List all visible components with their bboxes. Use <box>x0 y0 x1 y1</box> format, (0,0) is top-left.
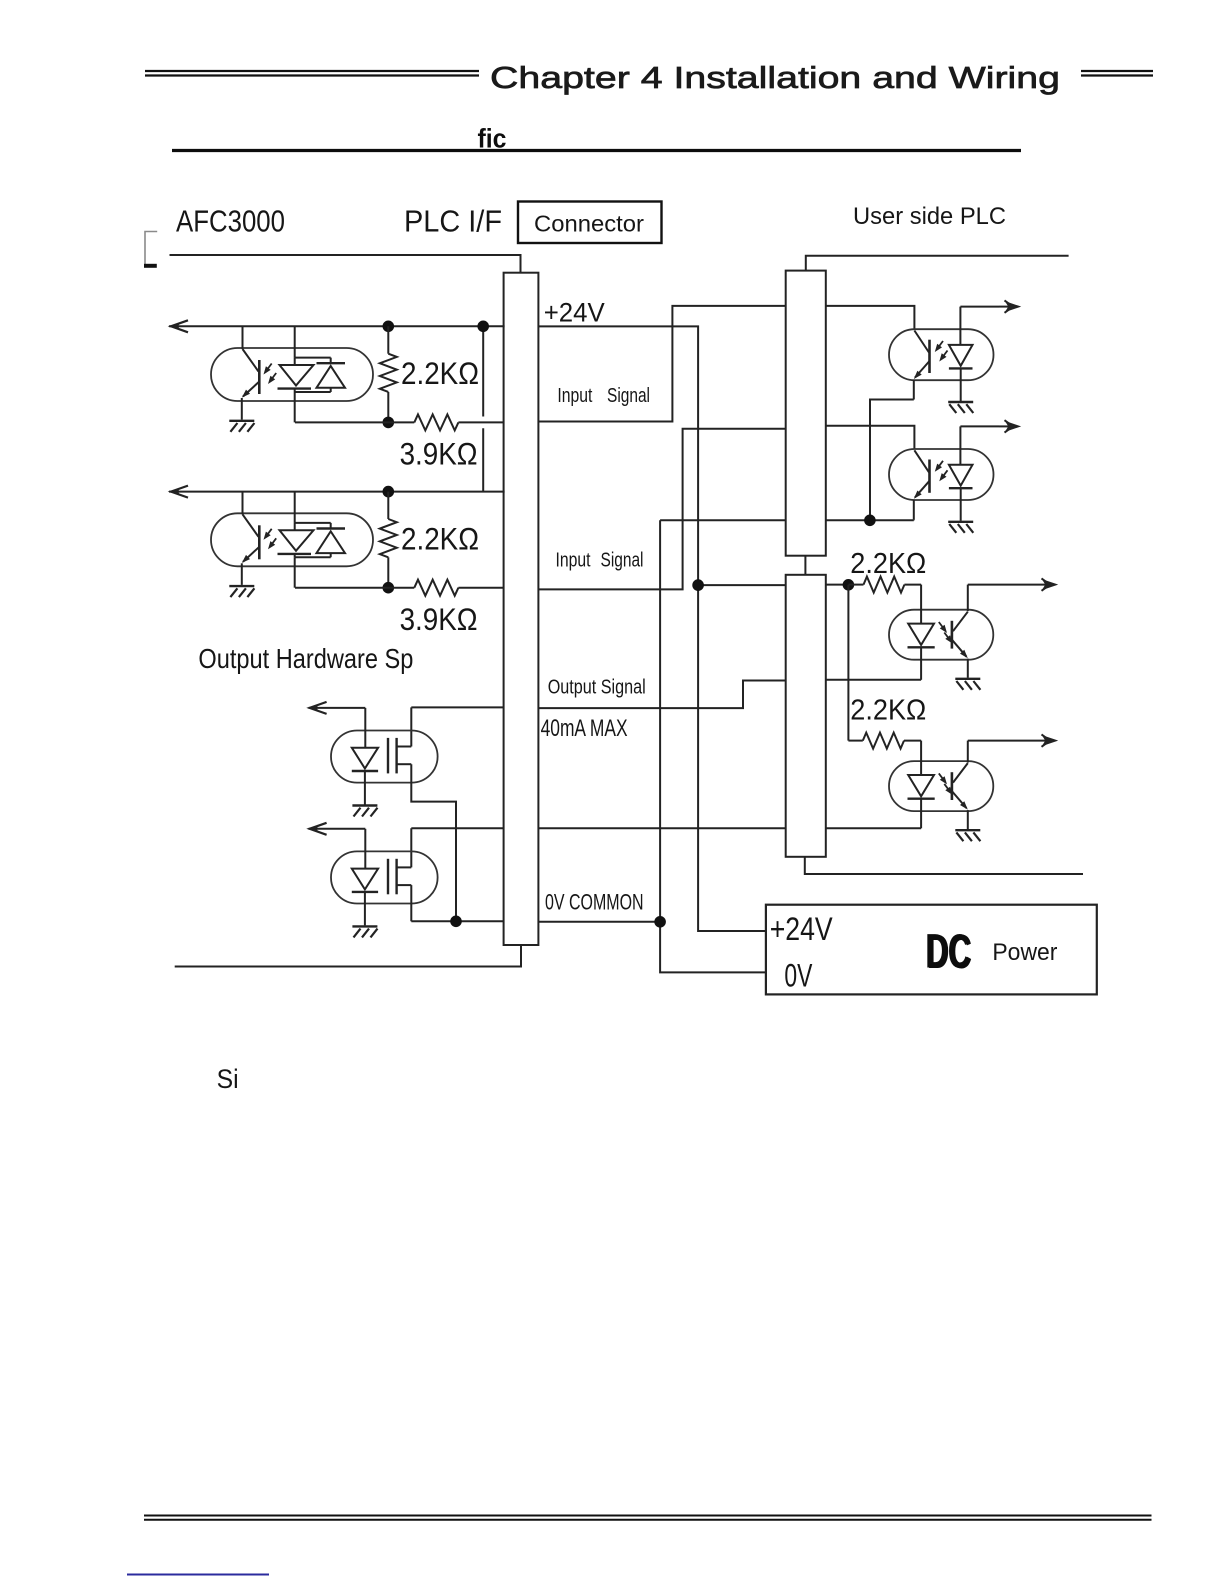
photomos PM1 body <box>331 731 438 783</box>
wire CN2 pin to PC4 collector <box>826 426 915 449</box>
ground input1 emitter <box>229 421 254 432</box>
wire output signal 2 CN1 to CN3 <box>538 827 785 829</box>
optocoupler PC4 body <box>889 449 994 500</box>
optocoupler PC5 body <box>889 610 993 660</box>
wire PC5 output arrow to user <box>968 578 1056 590</box>
ground input2 emitter <box>229 586 254 597</box>
connector CN3 user PLC output <box>786 575 826 857</box>
wire CN2-CN3 stub <box>804 556 806 575</box>
wire CN2 top rail <box>806 256 1069 271</box>
svg-text:Connector: Connector <box>534 211 644 237</box>
resistor R5 2.2KΩ <box>848 577 921 593</box>
optocoupler PC6 LED <box>908 741 935 829</box>
wire PC3 emitter return <box>870 400 914 521</box>
svg-text:User side PLC: User side PLC <box>853 203 1006 230</box>
optocoupler PC3 phototransistor <box>914 331 930 400</box>
wire PM2 source to 0V common <box>410 885 412 921</box>
light arrows PC3 <box>935 341 948 362</box>
ground PM2 LED <box>352 926 377 937</box>
junction +24V feed <box>477 321 489 333</box>
DC power supply box <box>766 905 1097 995</box>
junction 0V common <box>654 916 666 928</box>
wire +24V feed to input2 (with hop over 3.9K wire) <box>482 326 484 491</box>
resistor R2a 2.2KΩ <box>380 492 397 588</box>
photomos PM2 MOSFET <box>388 859 411 895</box>
resistor R6 2.2KΩ <box>848 733 921 749</box>
optocoupler PC4 LED <box>949 426 973 520</box>
wire output signal 1 CN1 to CN3 <box>538 681 785 709</box>
label Input Signal 1 <box>557 385 650 407</box>
optocoupler PC1 body <box>211 348 373 401</box>
wire CN3 bottom rail <box>805 857 1083 874</box>
wire PC6 output arrow to user <box>968 734 1056 746</box>
svg-text:Chapter 4 Installation and Wir: Chapter 4 Installation and Wiring <box>490 60 1060 95</box>
svg-text:Output Hardware Sp: Output Hardware Sp <box>198 643 413 674</box>
resistor R1a 2.2KΩ <box>380 326 397 422</box>
junction input2 resistor bottom <box>383 582 395 594</box>
light arrows PC5 <box>939 622 953 644</box>
bracket mark left margin <box>144 232 157 266</box>
optocoupler PC4 phototransistor <box>914 450 930 519</box>
resistor R2b 3.9KΩ with wire to CN1 <box>295 580 504 596</box>
optocoupler PC5 LED <box>908 585 935 680</box>
wire CN2 pin to PC3 collector <box>826 306 915 329</box>
wire AFC3000 top rail <box>171 255 521 273</box>
svg-text:2.2KΩ: 2.2KΩ <box>401 355 479 391</box>
footer double rule <box>144 1516 1152 1520</box>
svg-text:2.2KΩ: 2.2KΩ <box>850 548 926 580</box>
photomos PM2 LED <box>352 829 378 926</box>
photomos PM2 body <box>331 851 438 903</box>
wire CN3 +24V pin to resistor <box>826 584 849 586</box>
wire PC3 output arrow to user <box>960 300 1019 312</box>
svg-text:2.2KΩ: 2.2KΩ <box>850 694 926 726</box>
svg-text:3.9KΩ: 3.9KΩ <box>400 436 478 472</box>
connector label box <box>518 202 662 244</box>
ground PC4 LED <box>948 522 973 533</box>
wire output2 CN3 to PC6 cathode <box>826 827 921 829</box>
junction PM1 source on 0V common <box>450 916 462 928</box>
junction input1 resistor bottom <box>383 417 395 429</box>
ground PC3 LED <box>948 402 973 413</box>
header double rule left <box>145 71 479 76</box>
wire emitter common CN2 <box>826 519 914 521</box>
header double rule right <box>1081 71 1153 76</box>
junction +24V branch <box>692 579 704 591</box>
svg-text:AFC3000: AFC3000 <box>176 204 285 239</box>
wire output1 load (arrow) <box>309 702 366 714</box>
wire emitter common return to 0V <box>660 520 786 972</box>
wire PM1 source return <box>411 764 456 921</box>
optocoupler PC1 phototransistor <box>242 326 259 419</box>
svg-text:Output Signal: Output Signal <box>548 677 646 699</box>
resistor R1b 3.9KΩ with wire to CN1 <box>295 414 504 430</box>
svg-text:DC: DC <box>925 926 970 979</box>
light arrows PC4 <box>935 461 948 482</box>
photomos PM1 MOSFET <box>388 738 411 774</box>
photomos PM1 LED <box>352 708 378 805</box>
section heading underline <box>172 149 1021 152</box>
ground PM1 LED <box>352 806 377 817</box>
svg-text:0V: 0V <box>784 958 812 994</box>
svg-text:Si: Si <box>217 1064 239 1094</box>
connector CN1 PLC I/F <box>504 273 539 945</box>
svg-text:0V COMMON: 0V COMMON <box>545 890 644 915</box>
wire PC4 output arrow to user <box>960 420 1019 432</box>
light arrows PC2 <box>264 529 277 550</box>
svg-text:3.9KΩ: 3.9KΩ <box>400 601 478 637</box>
wire input2 +24V rail <box>170 486 504 498</box>
wire output2 drain to CN1 <box>411 828 503 867</box>
wire input signal 2 CN1 to CN2 <box>538 429 785 590</box>
optocoupler PC3 body <box>889 329 994 380</box>
wire resistor feed down <box>847 585 849 741</box>
optocoupler PC1 LED pair diodes <box>278 326 346 422</box>
wire output1 drain to CN1 <box>411 707 503 746</box>
label DC (bold) <box>925 926 972 980</box>
svg-text:2.2KΩ: 2.2KΩ <box>401 520 479 556</box>
junction input2 resistor top <box>383 486 395 498</box>
wire +24V branch to CN3 <box>698 584 786 586</box>
ground PC6 emitter <box>955 830 980 841</box>
label Input Signal 2 <box>556 550 644 572</box>
junction input1 resistor top <box>383 321 395 333</box>
svg-text:40mA MAX: 40mA MAX <box>541 715 628 742</box>
wire CN1 bottom rail <box>176 945 521 967</box>
wire output1 CN3 to PC5 cathode <box>826 679 921 681</box>
svg-text:Signal: Signal <box>607 385 650 407</box>
svg-text:Signal: Signal <box>601 550 644 572</box>
wire 0V common left <box>411 920 503 922</box>
svg-text:+24V: +24V <box>544 298 605 328</box>
light arrows PC6 <box>939 773 953 795</box>
optocoupler PC2 body <box>211 513 373 566</box>
wire 0V common right <box>538 921 660 923</box>
svg-text:Input: Input <box>556 550 591 572</box>
svg-text:PLC I/F: PLC I/F <box>404 204 502 239</box>
wire PC4 emitter to common <box>913 519 915 520</box>
svg-text:Input: Input <box>557 385 592 407</box>
light arrows PC1 <box>264 364 277 385</box>
optocoupler PC6 body <box>889 761 993 811</box>
svg-text:Power: Power <box>992 939 1057 966</box>
svg-text:+24V: +24V <box>770 911 834 947</box>
optocoupler PC2 phototransistor <box>242 492 259 585</box>
ground PC5 emitter <box>955 679 980 690</box>
footer link underline <box>127 1574 269 1576</box>
optocoupler PC6 phototransistor <box>952 741 968 830</box>
junction emitter common <box>864 515 876 527</box>
junction resistor feed <box>843 579 855 591</box>
wire output2 load (arrow) <box>309 823 366 835</box>
connector CN2 user PLC input <box>786 271 826 556</box>
optocoupler PC5 phototransistor <box>952 585 968 678</box>
optocoupler PC2 LED pair diodes <box>278 492 346 588</box>
wire input1 +24V rail <box>170 320 504 332</box>
wire input signal 1 CN1 to CN2 <box>538 306 785 422</box>
wire +24V pin to DC power <box>538 326 766 931</box>
optocoupler PC3 LED <box>949 307 973 401</box>
